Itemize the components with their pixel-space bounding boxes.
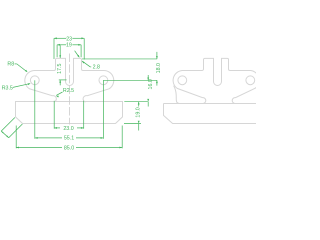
leader arrow to top edge bbox=[75, 51, 79, 57]
svg-text:17.5: 17.5 bbox=[57, 63, 63, 73]
left view centerline bbox=[69, 54, 71, 125]
right view left ear lower edge bbox=[174, 86, 180, 104]
left view upper outline (ears, boss, slot, feet) bbox=[25, 58, 114, 102]
svg-text:16.0: 16.0 bbox=[148, 79, 154, 89]
chamfer aligned dimension bbox=[1, 118, 15, 132]
dimension 19.0 bbox=[124, 123, 141, 125]
right view right hole bbox=[246, 76, 255, 85]
left view left hole bbox=[30, 76, 39, 85]
svg-text:55.1: 55.1 bbox=[64, 136, 74, 142]
svg-text:R8: R8 bbox=[7, 62, 14, 68]
dimension 17.5 (slot depth) bbox=[59, 45, 61, 58]
dimension 85.0 (body width) bbox=[15, 126, 17, 149]
left view right hole bbox=[99, 76, 108, 85]
svg-text:2.8: 2.8 bbox=[93, 65, 100, 71]
svg-text:19.0: 19.0 bbox=[136, 107, 142, 117]
leader R2.5 (foot tip radius) bbox=[56, 96, 59, 98]
dimension 16.0 bbox=[124, 101, 148, 103]
svg-text:R2.5: R2.5 bbox=[63, 88, 74, 94]
dimension 18.0 bbox=[82, 58, 157, 60]
svg-text:19: 19 bbox=[66, 43, 72, 49]
svg-text:23: 23 bbox=[66, 36, 72, 42]
svg-text:R3.5: R3.5 bbox=[2, 85, 13, 91]
dimension 23.0 (feet spacing) bbox=[53, 101, 55, 129]
svg-text:85.0: 85.0 bbox=[64, 145, 74, 151]
dimension 23 (top) bbox=[54, 37, 66, 39]
right view left hole bbox=[178, 76, 187, 85]
leader 2.8 bbox=[82, 61, 85, 64]
dimension 19 bbox=[57, 44, 66, 46]
svg-text:23.0: 23.0 bbox=[63, 126, 73, 132]
right view body bbox=[164, 104, 257, 124]
left view body with chamfers bbox=[16, 102, 123, 124]
dimension 55.1 (hole centers) bbox=[34, 80, 36, 138]
svg-text:18.0: 18.0 bbox=[156, 63, 162, 73]
right view upper outline (ears, boss, slot, feet) bbox=[173, 58, 259, 103]
